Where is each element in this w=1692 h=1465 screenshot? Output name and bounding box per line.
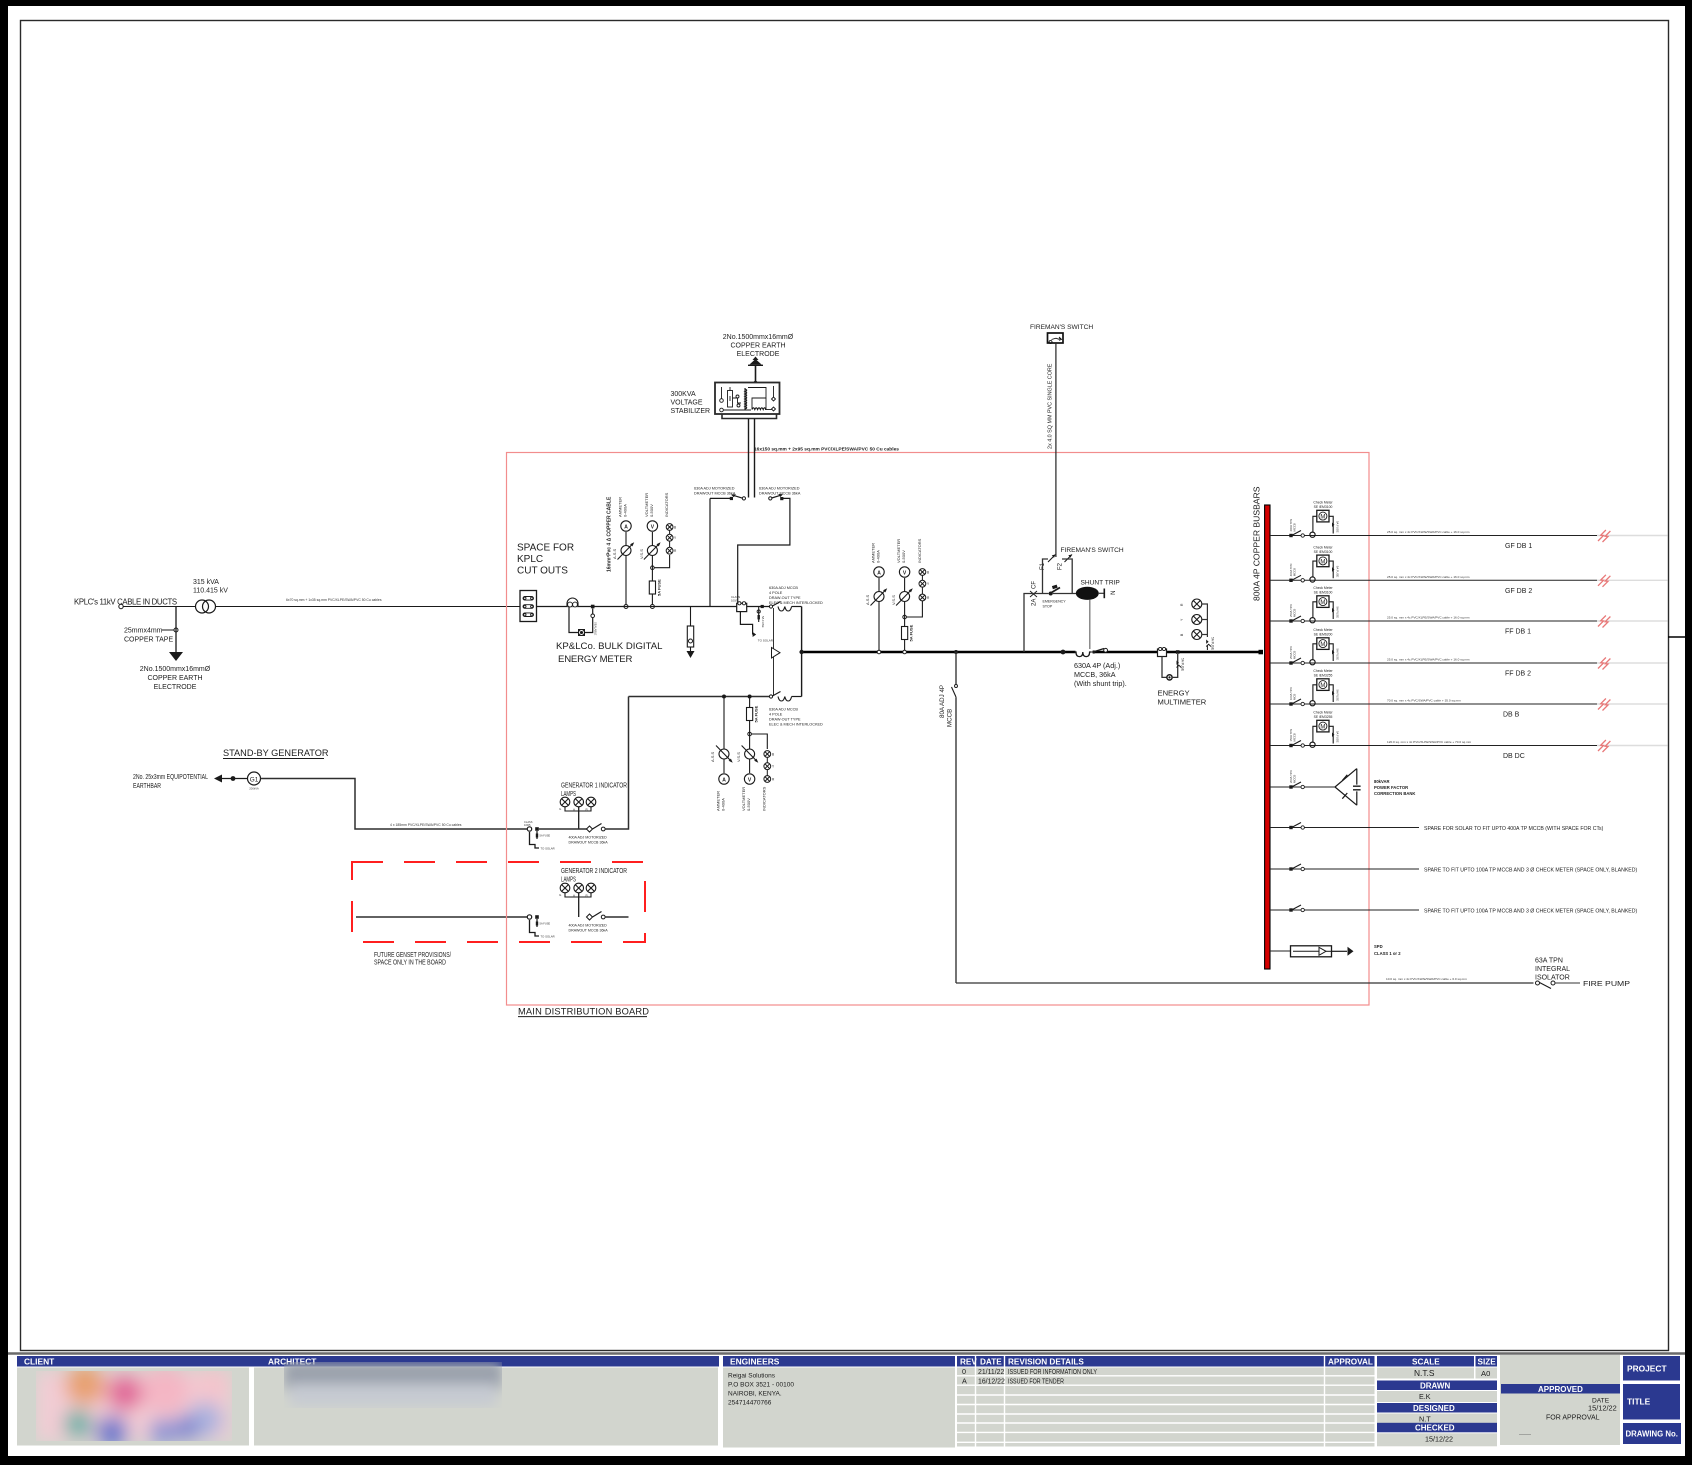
node voltmeter tap (650, 605, 654, 609)
wire cutouts to meter (537, 606, 770, 608)
svg-text:4 POLE: 4 POLE (769, 591, 783, 595)
svg-text:MCCB, 36kA: MCCB, 36kA (1074, 670, 1116, 679)
svg-text:REV: REV (960, 1358, 977, 1367)
node gen indicators junction (748, 732, 752, 736)
svg-text:M: M (1320, 683, 1325, 689)
svg-text:80kVAR: 80kVAR (1374, 779, 1390, 784)
svg-text:2No.1500mmx16mmØ: 2No.1500mmx16mmØ (140, 666, 211, 673)
CHECKED bar (1377, 1423, 1497, 1433)
switch pfc (1289, 785, 1292, 788)
main voltmeter selector (900, 592, 910, 602)
svg-text:0-400A: 0-400A (623, 504, 628, 517)
wire ATS mid riser (801, 607, 803, 697)
svg-text:25.0 sq. mm x 4c PVC/XLPE/SWA/: 25.0 sq. mm x 4c PVC/XLPE/SWA/PVC cable … (1387, 616, 1470, 620)
svg-text:EARTHBAR: EARTHBAR (133, 783, 161, 790)
future genset dashed box (352, 862, 645, 942)
svg-text:100/5: 100/5 (524, 823, 531, 827)
wire meter loop (569, 607, 578, 633)
lamp L3 (586, 797, 596, 807)
svg-text:TO SOLAR: TO SOLAR (758, 639, 774, 643)
APPROVED panel (1500, 1355, 1620, 1445)
svg-text:300KVA: 300KVA (671, 391, 696, 398)
wire right switch to CT (738, 498, 790, 603)
svg-text:A: A (877, 571, 881, 577)
svg-text:A0: A0 (1481, 1369, 1490, 1378)
svg-text:TO SOLAR: TO SOLAR (541, 847, 555, 851)
wire gen2 (356, 916, 527, 918)
wire stabilizer output pair (748, 419, 750, 498)
svg-text:LAMPS: LAMPS (561, 789, 576, 798)
fireman's switch icon (1048, 333, 1064, 343)
svg-text:21/11/22: 21/11/22 (978, 1369, 1004, 1376)
break symbol feeder5 (1598, 699, 1610, 711)
wire earth to stabilizer (755, 366, 757, 384)
svg-text:5A FUSE: 5A FUSE (1336, 690, 1340, 702)
svg-text:63A TPN: 63A TPN (1535, 958, 1563, 965)
breaker 630A with shunt trip (1076, 649, 1093, 655)
svg-text:DRAWOUT MCCB 36kA: DRAWOUT MCCB 36kA (569, 929, 609, 933)
svg-text:0-500V: 0-500V (746, 798, 751, 811)
wire main bus thick (802, 651, 1263, 654)
wire left riser (709, 498, 711, 606)
svg-text:A: A (624, 525, 628, 531)
svg-text:APPROVED: APPROVED (1538, 1385, 1583, 1394)
svg-text:M: M (1320, 559, 1325, 565)
gen ammeter A (719, 774, 729, 784)
svg-text:ELECTRODE: ELECTRODE (737, 351, 780, 358)
svg-text:V.S.S: V.S.S (891, 595, 896, 605)
node main ammeter tap (877, 650, 881, 654)
svg-text:COPPER TAPE: COPPER TAPE (124, 637, 173, 644)
svg-text:110.415 kV: 110.415 kV (193, 588, 228, 595)
breaker mains: contact+blade+bumps (761, 605, 764, 608)
multimeter element (1166, 674, 1173, 681)
svg-text:FIREMAN'S SWITCH: FIREMAN'S SWITCH (1061, 547, 1124, 554)
svg-text:SPARE TO FIT UPTO 100A TP MCCB: SPARE TO FIT UPTO 100A TP MCCB AND 3 Ø C… (1424, 909, 1637, 915)
wire main voltmeter column (904, 578, 906, 650)
svg-text:2x 4.0 SQ MM PVC SINGLE CORE: 2x 4.0 SQ MM PVC SINGLE CORE (1048, 363, 1054, 449)
svg-text:25mmx4mm: 25mmx4mm (124, 628, 163, 635)
svg-text:M: M (1320, 515, 1325, 521)
REV table body (957, 1368, 1375, 1447)
switch spare1 (1289, 826, 1292, 829)
svg-text:DRAW-OUT TYPE: DRAW-OUT TYPE (769, 596, 801, 600)
wire spare2 (1270, 868, 1419, 870)
svg-text:A.S.S: A.S.S (865, 594, 870, 605)
wire feeder4 (1270, 662, 1597, 664)
wire earthbar arrow (214, 775, 222, 783)
svg-text:6x70 sq.mm + 1x35 sq.mm PVC/XL: 6x70 sq.mm + 1x35 sq.mm PVC/XLPE/SWA/PVC… (286, 598, 382, 602)
TITLE box (1623, 1384, 1680, 1420)
wire busbar lamps (1202, 604, 1208, 637)
svg-text:INDICATORS: INDICATORS (917, 538, 922, 563)
wire gen1 to switch (539, 828, 587, 830)
node ammeter tap (624, 605, 628, 609)
lamp L5 (574, 883, 584, 893)
wire multimeter loop (1162, 657, 1167, 678)
switch feeder4 (1289, 661, 1292, 664)
svg-text:315 kVA: 315 kVA (193, 579, 219, 586)
svg-text:4 x 185mm PVC/XLPE/SWA/PVC 50: 4 x 185mm PVC/XLPE/SWA/PVC 50 Cu cables (390, 823, 462, 827)
svg-text:5A FUSE: 5A FUSE (761, 616, 765, 628)
wire to fire pump (1555, 982, 1580, 984)
svg-text:SE iEM3255: SE iEM3255 (1314, 715, 1333, 719)
svg-text:MULTIMETER: MULTIMETER (1158, 698, 1207, 707)
svg-text:2No. 25x3mm EQUIPOTENTIAL: 2No. 25x3mm EQUIPOTENTIAL (133, 774, 208, 781)
svg-text:REVISION DETAILS: REVISION DETAILS (1008, 1358, 1084, 1367)
svg-text:MCCB: MCCB (947, 709, 954, 727)
CT class 100/5 main (737, 603, 747, 611)
svg-text:ISOLATOR: ISOLATOR (1535, 975, 1570, 982)
node earthbar junction (231, 776, 236, 781)
svg-text:5A FUSE: 5A FUSE (909, 624, 914, 641)
kWh meter M1 (567, 598, 578, 606)
break symbol feeder2 (1598, 575, 1610, 587)
svg-text:STABILIZER: STABILIZER (671, 408, 711, 415)
check meter feeder5 (1313, 685, 1317, 701)
node indicators junction (651, 566, 655, 570)
node main indicators junction (903, 615, 907, 619)
svg-text:TO SOLAR: TO SOLAR (541, 935, 555, 939)
isolator 63A TPN (1536, 981, 1540, 985)
CLIENT/ARCHITECT header bar (17, 1356, 719, 1367)
svg-text:630A ADJ MOTORIZED: 630A ADJ MOTORIZED (759, 487, 800, 491)
wire spare3 (1270, 909, 1419, 911)
busbar 800A 4P (1265, 505, 1270, 969)
CT multimeter (1158, 649, 1167, 657)
svg-text:SE iEM3100: SE iEM3100 (1314, 505, 1333, 509)
svg-text:800A 4P COPPER BUSBARS: 800A 4P COPPER BUSBARS (1252, 486, 1262, 601)
svg-text:CHECKED: CHECKED (1415, 1424, 1455, 1433)
svg-text:MCB: MCB (1293, 694, 1297, 700)
svg-text:M: M (1320, 642, 1325, 648)
svg-text:TITLE: TITLE (1627, 1397, 1651, 1407)
shunt trip coil (1076, 587, 1099, 600)
svg-text:MCCB: MCCB (1293, 568, 1297, 576)
svg-text:INDICATORS: INDICATORS (664, 492, 669, 517)
svg-text:FOR APPROVAL: FOR APPROVAL (1546, 1415, 1600, 1422)
svg-text:400A ADJ MOTORIZED: 400A ADJ MOTORIZED (569, 836, 608, 840)
wire left leg to bus (1024, 594, 1049, 653)
svg-text:B: B (927, 571, 929, 575)
svg-text:INTEGRAL: INTEGRAL (1535, 966, 1570, 973)
svg-text:0: 0 (962, 1367, 966, 1376)
svg-text:ELECTRODE: ELECTRODE (154, 684, 197, 691)
svg-text:5A FUSE: 5A FUSE (540, 834, 551, 838)
wire ammeter column (625, 532, 627, 605)
svg-text:DRAWING No.: DRAWING No. (1626, 1430, 1678, 1439)
svg-text:5A FUSE: 5A FUSE (754, 705, 759, 722)
capacitor bank (1305, 786, 1336, 788)
svg-text:0-500V: 0-500V (649, 504, 654, 517)
svg-text:SHUNT TRIP: SHUNT TRIP (1081, 580, 1121, 587)
switch spare2 (1289, 867, 1292, 870)
svg-text:A: A (722, 778, 726, 784)
interlock link (773, 608, 775, 695)
check meter feeder4 (1313, 644, 1317, 660)
svg-text:SPACE ONLY IN THE BOARD: SPACE ONLY IN THE BOARD (374, 958, 446, 967)
svg-text:5A FUSE: 5A FUSE (1181, 658, 1185, 671)
svg-text:MAIN DISTRIBUTION BOARD: MAIN DISTRIBUTION BOARD (518, 1006, 649, 1016)
switch feeder3 (1289, 619, 1292, 622)
outer black border left (0, 0, 8, 1465)
svg-text:SEALABLE: SEALABLE (594, 622, 598, 636)
svg-text:5A FUSE: 5A FUSE (657, 579, 662, 596)
svg-text:M: M (1320, 725, 1325, 731)
wire gen voltmeter column (749, 699, 751, 774)
wire gen indicators link (751, 734, 767, 749)
fuse gen voltmeter (747, 708, 753, 721)
svg-text:ISSUED FOR TENDER: ISSUED FOR TENDER (1008, 1378, 1064, 1385)
wire earth tap (175, 607, 177, 653)
svg-text:P.O BOX 3521 - 00100: P.O BOX 3521 - 00100 (728, 1382, 794, 1389)
svg-text:DATE: DATE (980, 1358, 1002, 1367)
wire shunt coil to breaker (1089, 600, 1091, 651)
svg-text:GF DB 2: GF DB 2 (1505, 588, 1532, 595)
SCALE box (1377, 1356, 1474, 1367)
SPD arrow (1332, 950, 1348, 952)
voltmeter selector V.S.S (647, 546, 657, 556)
svg-text:B: B (674, 526, 676, 530)
CT feeder2 (1310, 577, 1315, 582)
svg-text:FF DB 1: FF DB 1 (1505, 629, 1531, 636)
svg-text:SPARE FOR SOLAR TO FIT UPTO 40: SPARE FOR SOLAR TO FIT UPTO 400A TP MCCB… (1424, 826, 1604, 832)
ground: earth electrode arrow (169, 652, 183, 661)
node gen1 junction (535, 827, 539, 831)
indicator lamps kplc (666, 524, 673, 555)
svg-text:4 POLE: 4 POLE (769, 713, 783, 717)
svg-text:16mm²Pvc 4 Δ COPPER CABLE: 16mm²Pvc 4 Δ COPPER CABLE (607, 496, 613, 572)
wire pfc (1270, 786, 1305, 788)
svg-text:5A FUSE: 5A FUSE (1336, 521, 1340, 533)
break symbol feeder6 (1598, 740, 1610, 752)
svg-text:FIREMAN'S SWITCH: FIREMAN'S SWITCH (1030, 324, 1093, 331)
svg-text:100/5: 100/5 (731, 598, 738, 602)
svg-text:630A ADJ MCCB: 630A ADJ MCCB (769, 708, 798, 712)
svg-text:N.T.S: N.T.S (1414, 1368, 1435, 1378)
ENGINEERS header bar (723, 1356, 955, 1367)
ENGINEERS grey panel (723, 1368, 955, 1448)
svg-text:FF DB 2: FF DB 2 (1505, 671, 1531, 678)
CT feeder3 (1310, 618, 1315, 623)
fuse F2 (1065, 555, 1073, 563)
ammeter A (621, 521, 631, 531)
check meter feeder3 (1313, 602, 1317, 618)
svg-text:CORRECTION BANK: CORRECTION BANK (1374, 791, 1415, 796)
transformer T1 315kVA (196, 600, 209, 613)
switch: 400A motorized drawout MCCB gen2 (587, 914, 593, 920)
KPLC cutouts fuse bank (520, 591, 537, 622)
node bus-ats (799, 650, 803, 654)
svg-text:DRAW-OUT TYPE: DRAW-OUT TYPE (769, 718, 801, 722)
switch feeder6 (1289, 744, 1292, 747)
svg-text:DRAWOUT MCCB 36kA: DRAWOUT MCCB 36kA (694, 492, 736, 496)
svg-text:2No.1500mmx16mmØ: 2No.1500mmx16mmØ (723, 334, 794, 341)
fuse F1 (1048, 555, 1056, 563)
node: KPLC incoming terminal (119, 604, 123, 608)
stabilizer pedestal (722, 415, 777, 419)
node multimeter junction (1176, 650, 1180, 654)
svg-text:15/12/22: 15/12/22 (1588, 1404, 1617, 1413)
wire G1 to board (261, 779, 528, 830)
svg-text:15/12/22: 15/12/22 (1425, 1435, 1453, 1444)
svg-text:DB DC: DB DC (1503, 753, 1525, 760)
switch feeder1 (1289, 534, 1292, 537)
CT feeder1 (1310, 532, 1315, 537)
svg-text:16x150 sq.mm + 2x95 sq.mm P: 16x150 sq.mm + 2x95 sq.mm PVC/XLPE/SWA/P… (754, 447, 899, 453)
svg-text:ELEC & MECH INTERLOCKED: ELEC & MECH INTERLOCKED (769, 723, 823, 727)
wire gen1 switch to riser (605, 697, 629, 830)
CT feeder6 (1310, 742, 1315, 747)
svg-text:SPACE FOR: SPACE FOR (517, 543, 574, 554)
svg-text:A.S.S: A.S.S (710, 751, 715, 762)
wire fireman loop box (1043, 559, 1049, 594)
outer black border bottom (0, 1456, 1692, 1465)
fuse 5A to solar (757, 610, 760, 613)
break symbol feeder1 (1598, 530, 1610, 542)
svg-text:254714470766: 254714470766 (728, 1400, 772, 1407)
main ammeter selector (874, 592, 884, 602)
svg-text:VOLTAGE: VOLTAGE (671, 400, 703, 407)
svg-text:F2: F2 (1058, 562, 1064, 570)
wire feeder6 (1270, 745, 1597, 747)
svg-text:SPARE TO FIT UPTO 100A TP MCCB: SPARE TO FIT UPTO 100A TP MCCB AND 3 Ø C… (1424, 868, 1637, 874)
lamp L6 (586, 883, 596, 893)
gen voltmeter selector (745, 749, 755, 759)
svg-text:MCCB: MCCB (1293, 651, 1297, 659)
svg-text:SIZE: SIZE (1478, 1358, 1497, 1367)
voltmeter V (647, 521, 657, 531)
wire from transformer to cutouts (216, 606, 521, 608)
meter element (578, 629, 585, 636)
svg-text:CUT OUTS: CUT OUTS (517, 566, 568, 577)
wire feeder5 (1270, 703, 1597, 705)
svg-text:M: M (1320, 600, 1325, 606)
svg-text:120.0 sq. mm x 4c PVC/XLPE/SWA: 120.0 sq. mm x 4c PVC/XLPE/SWA/PVC cable… (1387, 740, 1472, 744)
architect logo blur (284, 1362, 502, 1406)
svg-text:N.T: N.T (1419, 1414, 1431, 1423)
svg-text:25.0 sq. mm x 4c PVC/XLPE/SWA/: 25.0 sq. mm x 4c PVC/XLPE/SWA/PVC cable … (1387, 575, 1470, 579)
fuse busbar lamps (1206, 640, 1208, 644)
wire multimeter loop right w/ fuse (1173, 654, 1178, 677)
svg-text:MCCB: MCCB (1293, 775, 1297, 783)
svg-text:CLASS 1 or 2: CLASS 1 or 2 (1374, 951, 1401, 956)
node main voltmeter tap (903, 650, 907, 654)
svg-text:SE iEM6200: SE iEM6200 (1314, 633, 1333, 637)
svg-text:SE iEM3100: SE iEM3100 (1314, 591, 1333, 595)
CT feeder4 (1310, 660, 1315, 665)
wire feeder2 (1270, 579, 1597, 581)
svg-text:KPLC's 11kV CABLE IN DUCTS: KPLC's 11kV CABLE IN DUCTS (74, 598, 177, 607)
svg-text:200kVA: 200kVA (249, 787, 259, 791)
svg-text:B: B (772, 753, 774, 757)
wire gen bus (629, 696, 770, 698)
border bottom gray double line (8, 1352, 1685, 1354)
svg-text:10.0 sq. mm x 4c PVC/XLPE/SWA/: 10.0 sq. mm x 4c PVC/XLPE/SWA/PVC cable … (1386, 977, 1467, 981)
svg-text:0-400A: 0-400A (876, 550, 881, 563)
svg-text:ENERGY METER: ENERGY METER (558, 654, 632, 665)
svg-text:80A ADJ 4P: 80A ADJ 4P (939, 685, 946, 718)
svg-text:A.S.S: A.S.S (612, 548, 617, 559)
fuse voltmeter 5A (649, 581, 655, 594)
svg-text:5A FUSE: 5A FUSE (1336, 649, 1340, 661)
svg-text:KPLC: KPLC (517, 554, 543, 565)
check meter feeder1 (1313, 516, 1317, 532)
node copper tape tap (174, 628, 178, 632)
lamp L1 (560, 797, 570, 807)
svg-text:STAND-BY GENERATOR: STAND-BY GENERATOR (223, 748, 329, 758)
svg-text:SE iEM3255: SE iEM3255 (1314, 674, 1333, 678)
emergency stop pushbutton (1049, 592, 1053, 596)
lamp L2 (574, 797, 584, 807)
node fireman bus junction (1061, 650, 1066, 655)
wire feeder3 (1270, 620, 1597, 622)
svg-text:SCALE: SCALE (1412, 1358, 1440, 1367)
svg-text:NAIROBI, KENYA.: NAIROBI, KENYA. (728, 1391, 782, 1398)
stabilizer U1 box (715, 383, 780, 415)
svg-text:5A FUSE: 5A FUSE (1336, 607, 1340, 619)
client logo blur (36, 1365, 232, 1448)
svg-text:A: A (962, 1376, 967, 1385)
svg-text:INDICATORS: INDICATORS (762, 786, 767, 811)
svg-text:630A ADJ MCCB: 630A ADJ MCCB (769, 586, 798, 590)
wire spd (1270, 950, 1295, 952)
svg-text:ENERGY: ENERGY (1158, 689, 1190, 698)
svg-text:V.S.S: V.S.S (736, 752, 741, 762)
wire em-stop to shunt coil (1053, 593, 1076, 595)
DESIGNED bar (1377, 1403, 1497, 1413)
check meter feeder6 (1313, 726, 1317, 742)
svg-text:E.K: E.K (1419, 1392, 1431, 1401)
wire main ammeter column (878, 578, 880, 650)
svg-text:0-400A: 0-400A (721, 798, 726, 811)
fuse main voltmeter (902, 627, 908, 640)
DRAWING No box (1623, 1423, 1681, 1444)
svg-text:KP&LCo. BULK DIGITAL: KP&LCo. BULK DIGITAL (556, 641, 663, 652)
CLIENT grey panel (17, 1368, 249, 1446)
wire feeder1 (1270, 535, 1597, 537)
wire main CT to solar (740, 612, 752, 635)
svg-text:------: ------ (1519, 1432, 1531, 1438)
ammeter selector A.S.S (621, 546, 631, 556)
node meter junction (591, 605, 595, 609)
svg-text:630A ADJ MOTORIZED: 630A ADJ MOTORIZED (694, 487, 735, 491)
svg-text:EMERGENCY: EMERGENCY (1043, 600, 1067, 604)
SIZE box (1476, 1356, 1498, 1367)
svg-text:630A 4P (Adj.): 630A 4P (Adj.) (1074, 661, 1120, 670)
breaker gen: contact+blade+bumps (769, 695, 772, 698)
wire lamps bus g2 (565, 893, 591, 897)
svg-text:G1: G1 (250, 777, 259, 784)
gen voltmeter V (744, 774, 754, 784)
break symbol feeder3 (1598, 616, 1610, 628)
svg-text:SPD: SPD (1374, 944, 1383, 949)
wire indicators link (654, 555, 669, 568)
switch feeder5 (1289, 702, 1292, 705)
node gen voltmeter tap (748, 695, 752, 699)
svg-text:POWER FACTOR: POWER FACTOR (1374, 785, 1408, 790)
REV table header (957, 1356, 1375, 1367)
svg-text:25.0 sq. mm x 4c PVC/XLPE/SWA/: 25.0 sq. mm x 4c PVC/XLPE/SWA/PVC cable … (1387, 658, 1470, 662)
wire 80A dropper (955, 652, 957, 983)
node bus at busbar (1259, 650, 1264, 655)
scale values panel (1377, 1368, 1474, 1379)
check meter feeder2 (1313, 561, 1317, 577)
svg-text:COPPER EARTH: COPPER EARTH (730, 343, 785, 350)
wire gen2 meter tap to solar (530, 920, 540, 936)
gen ammeter selector (719, 749, 729, 759)
right border centre tick (1668, 636, 1686, 638)
